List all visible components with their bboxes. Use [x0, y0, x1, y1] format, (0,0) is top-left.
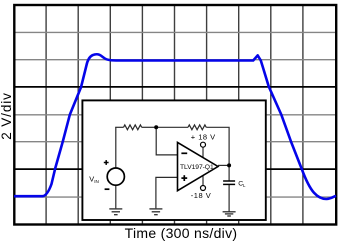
ground below noninverting input [149, 209, 162, 215]
wire -18V supply pin [202, 175, 204, 186]
wire output node to capacitor CL [228, 165, 230, 180]
label VIN [89, 175, 98, 184]
wire noninverting input to ground [156, 177, 178, 208]
wire capacitor CL to ground [228, 185, 230, 212]
wire R1 to node A [142, 126, 157, 128]
wire Vin source bottom to ground [115, 185, 117, 208]
op-amp plus input sign [181, 175, 187, 181]
op-amp minus input sign [181, 152, 187, 154]
wire node A to inverting input [156, 127, 177, 155]
grid dark horizontal line upper [14, 86, 337, 88]
+18V supply terminal circle [201, 142, 206, 147]
Vin plus sign [104, 160, 109, 165]
node A junction dot [154, 125, 158, 129]
grid dark horizontal line lower [14, 168, 337, 170]
ground below capacitor CL [223, 212, 236, 216]
wire feedback R2 to output node [206, 127, 229, 165]
ground below Vin [109, 209, 122, 215]
grid horizontal minor lines [14, 32, 337, 197]
op-amp U1 TLV197-Q1 [178, 142, 219, 190]
voltage source Vin [107, 168, 124, 185]
svg-text:+ 18 V: + 18 V [191, 133, 216, 142]
capacitor CL plates [223, 181, 235, 184]
resistor R2 [188, 125, 206, 130]
resistor R1 [124, 125, 142, 130]
wire Vin to R1 [115, 127, 117, 168]
svg-text:TLV197-Q1: TLV197-Q1 [180, 164, 214, 171]
svg-text:-18 V: -18 V [191, 191, 211, 200]
Vin minus sign [105, 188, 110, 190]
label CL [238, 180, 246, 188]
waveform trace (output step response) [14, 54, 336, 199]
inset schematic box [82, 100, 265, 220]
wire node A to R2 [156, 126, 188, 128]
svg-text:Time (300 ns/div): Time (300 ns/div) [125, 225, 238, 241]
svg-text:2 V/div: 2 V/div [0, 92, 14, 140]
wire op-amp output [218, 164, 229, 166]
svg-text:IN: IN [94, 179, 99, 184]
grid vertical lines [46, 5, 303, 225]
wire +18V supply pin [202, 147, 204, 158]
-18V supply terminal circle [201, 186, 206, 191]
output node junction dot [227, 163, 231, 167]
